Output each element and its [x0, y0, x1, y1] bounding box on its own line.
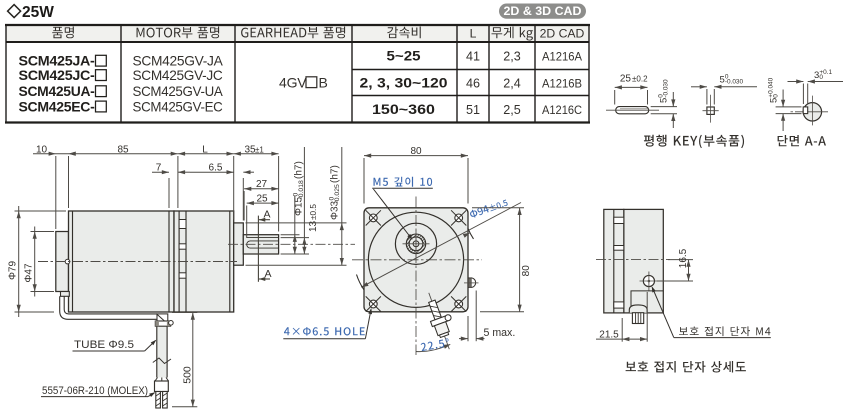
spec table grid: [5, 25, 590, 123]
bearing boss circle on rear joint: [65, 259, 70, 264]
svg-text:SCM425GV-JA: SCM425GV-JA: [133, 54, 224, 69]
svg-text:SCM425GV-JC: SCM425GV-JC: [133, 68, 223, 83]
svg-text:46: 46: [466, 76, 480, 90]
svg-text:6.5: 6.5: [209, 163, 223, 174]
svg-text:80: 80: [521, 265, 532, 277]
dimension 500: [172, 313, 197, 407]
svg-text:5557-06R-210 (MOLEX): 5557-06R-210 (MOLEX): [42, 385, 148, 397]
rear view gearhead strips: [604, 209, 624, 313]
dimension 5-0.030 key height: [651, 79, 677, 128]
dimension 7: [152, 163, 190, 208]
table header 감속비: [387, 27, 421, 39]
svg-text:-0.030: -0.030: [725, 78, 744, 85]
svg-text:25: 25: [256, 194, 268, 205]
dimension Φ94±0.5: [357, 199, 522, 290]
svg-text:±0.5: ±0.5: [309, 204, 318, 220]
svg-text:SCM425GV-UA: SCM425GV-UA: [133, 84, 224, 99]
dimension 25±0.2: [615, 74, 648, 105]
svg-text:±1: ±1: [255, 145, 264, 154]
svg-text:41: 41: [466, 49, 480, 63]
svg-text:500: 500: [181, 366, 193, 384]
svg-text:4GV: 4GV: [279, 74, 307, 90]
centerline shaft: [228, 243, 355, 245]
svg-text:Φ79: Φ79: [8, 261, 19, 281]
svg-text:B: B: [319, 74, 328, 90]
svg-text:13: 13: [308, 220, 319, 232]
svg-text:2,5: 2,5: [503, 103, 521, 117]
table column 무게 values: [503, 49, 521, 117]
svg-text:A1216B: A1216B: [542, 76, 582, 90]
table column L values: [466, 49, 480, 117]
svg-text:0: 0: [773, 94, 780, 98]
table header 무게 kg: [492, 27, 533, 41]
svg-text:150~360: 150~360: [372, 101, 435, 117]
bolt holes 4×Φ6.5: [366, 210, 467, 311]
dimension Φ15 shaft: [281, 161, 309, 254]
svg-text:2D & 3D CAD: 2D & 3D CAD: [504, 4, 582, 18]
spec table header background: [6, 25, 589, 42]
svg-text:(h7): (h7): [294, 161, 305, 179]
svg-text:TUBE Φ9.5: TUBE Φ9.5: [74, 339, 134, 351]
dimension 21.5: [596, 292, 647, 342]
motor body: [69, 211, 175, 312]
motor rear housing: [56, 232, 69, 292]
dimension 22.5°: [416, 338, 451, 351]
table column 감속비 values: [360, 47, 448, 117]
dimension 16.5: [657, 248, 693, 281]
svg-text:A1216A: A1216A: [542, 49, 583, 63]
front view centerlines: [352, 197, 482, 356]
terminal boss outline: [631, 291, 663, 313]
table column 품명 values: [19, 53, 107, 115]
shaft crosshair: [403, 231, 430, 258]
earth terminal side protrusion: [464, 278, 479, 288]
svg-text:L: L: [470, 26, 477, 40]
molex connector: [155, 378, 169, 409]
section marker A-A: [258, 209, 271, 282]
svg-text:L: L: [202, 144, 208, 155]
svg-text:SCM425UA-: SCM425UA-: [19, 83, 96, 99]
output shaft: [243, 235, 278, 254]
dimension Φ79: [8, 206, 66, 317]
svg-text:25: 25: [620, 74, 632, 85]
flange square: [364, 208, 468, 312]
table header 품명: [52, 27, 74, 39]
tube break mark: [153, 358, 171, 364]
lead wire exit block: [61, 292, 70, 297]
dimension 80 right: [472, 208, 532, 312]
svg-text:A: A: [264, 209, 271, 221]
dimension 85: [69, 144, 178, 208]
svg-text:21.5: 21.5: [599, 329, 619, 340]
gearhead case circle: [368, 212, 463, 307]
earth terminal screw rear view: [640, 272, 659, 291]
tube fitting neck: [157, 314, 168, 321]
caption 평행 KEY(부속품): [644, 135, 744, 148]
rear view slots: [614, 217, 624, 308]
section A-A keyway notch: [803, 107, 808, 114]
dimension Φ47: [24, 227, 54, 297]
earth terminal screw 22.5°: [421, 288, 461, 351]
dimension 13±0.5: [281, 147, 319, 254]
dimension 5-0.030 key width: [691, 73, 757, 104]
svg-text:SCM425EC-: SCM425EC-: [19, 98, 96, 114]
dimension 6.5: [190, 163, 254, 221]
label 5557-06R-210 (MOLEX): [41, 385, 155, 397]
dimension 5 max: [459, 291, 515, 342]
section A-A shaft circle: [791, 96, 829, 126]
svg-text:-0.030: -0.030: [663, 79, 670, 98]
label 4×Φ6.5 HOLE: [283, 308, 372, 339]
svg-text:±0.2: ±0.2: [632, 75, 648, 84]
centerline motor body: [38, 261, 237, 263]
svg-text:A: A: [265, 268, 272, 280]
output boss circle front: [395, 223, 436, 264]
svg-text:5 max.: 5 max.: [484, 327, 516, 339]
dimension 25 key length: [247, 194, 279, 239]
svg-text:10: 10: [36, 144, 48, 155]
svg-text:80: 80: [410, 146, 422, 157]
svg-text:2D CAD: 2D CAD: [540, 26, 585, 40]
table cell 4GV□B: [279, 74, 328, 90]
svg-text:2,3: 2,3: [503, 49, 521, 63]
dimension 80 top: [364, 146, 468, 203]
svg-text:2, 3, 30~120: 2, 3, 30~120: [360, 74, 448, 90]
M5 tap hole: [413, 241, 419, 247]
svg-text:7: 7: [156, 163, 162, 174]
table column MOTOR부 values: [133, 54, 224, 115]
rear view body: [624, 209, 664, 313]
key cross-section square: [703, 95, 719, 123]
svg-text:85: 85: [117, 144, 129, 155]
svg-text:(h7): (h7): [330, 165, 341, 183]
label 보호 접지 단자 M4: [652, 286, 771, 337]
svg-text:-0.025: -0.025: [334, 184, 341, 203]
dimension 35±1: [234, 144, 279, 231]
svg-text:5~25: 5~25: [387, 47, 421, 63]
svg-text:SCM425JC-: SCM425JC-: [19, 67, 96, 83]
dimension Φ33 boss: [246, 147, 347, 265]
table header GEARHEAD부 품명: [241, 27, 345, 39]
svg-text:SCM425GV-EC: SCM425GV-EC: [133, 99, 223, 114]
gearhead body: [174, 211, 234, 312]
table column 2D CAD values: [542, 49, 583, 117]
gearhead plate slots: [179, 220, 186, 279]
badge 2D & 3D CAD: [499, 4, 586, 19]
svg-text:Φ47: Φ47: [24, 263, 35, 283]
dimension 10: [33, 144, 76, 229]
svg-text:25W: 25W: [22, 4, 54, 21]
svg-text:27: 27: [256, 179, 268, 190]
svg-text:A1216C: A1216C: [542, 103, 582, 117]
dimension 5+0.040: [768, 77, 802, 131]
label TUBE Φ9.5: [73, 339, 157, 351]
dimension 3+0.1: [788, 69, 844, 104]
svg-text:0: 0: [819, 74, 823, 81]
svg-text:16.5: 16.5: [678, 248, 689, 268]
cable bushing: [629, 305, 647, 324]
shaft keyway: [247, 238, 279, 249]
caption 단면 A-A: [778, 135, 826, 146]
label M5 깊이 10: [372, 177, 433, 240]
dimension 27: [244, 179, 279, 220]
table header MOTOR부 품명: [137, 27, 220, 39]
rear centerline: [596, 259, 670, 261]
svg-text:2,4: 2,4: [503, 76, 521, 90]
tube clamp: [155, 321, 173, 327]
parallel key outline: [606, 107, 659, 114]
dimension L: [178, 144, 234, 219]
caption 보호 접지 단자 상세도: [626, 361, 746, 373]
svg-text:51: 51: [466, 103, 480, 117]
lead wire: [60, 296, 157, 319]
cable tube: [157, 326, 167, 377]
output boss: [234, 223, 244, 265]
title diamond bullet: [8, 5, 21, 18]
